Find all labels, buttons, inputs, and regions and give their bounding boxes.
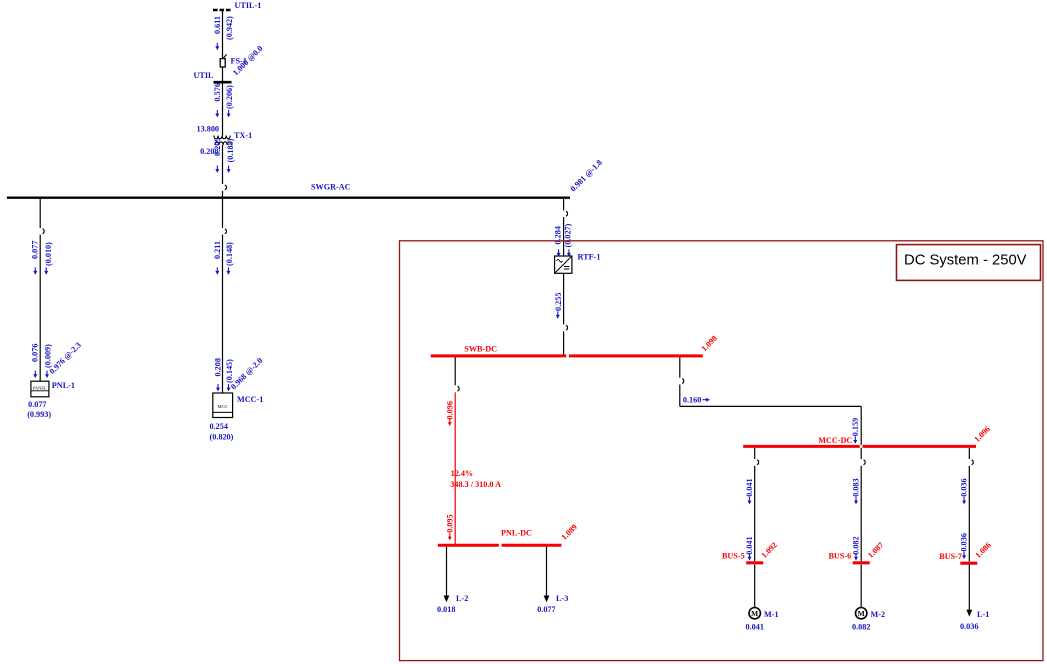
wire SWGR-AC to breaker [222, 199, 224, 228]
flow arrow [853, 436, 857, 443]
breaker MCC-DC feed [682, 379, 684, 384]
svg-text:L-1: L-1 [977, 610, 989, 619]
svg-text:0.077: 0.077 [28, 400, 46, 409]
svg-text:RTF-1: RTF-1 [578, 253, 601, 262]
svg-text:SWB-DC: SWB-DC [464, 345, 497, 354]
wire UTIL bus to TX-1 [222, 83, 224, 135]
overloaded cable to PNL-DC [454, 392, 456, 544]
svg-text:0.036: 0.036 [960, 622, 978, 631]
transformer TX-1 [214, 136, 231, 145]
bus UTIL [214, 81, 232, 84]
svg-text:(0.010): (0.010) [44, 242, 53, 266]
svg-text:MCC-1: MCC-1 [237, 395, 263, 404]
breaker BUS-5 feed [757, 460, 759, 465]
bus BUS-7 [960, 562, 977, 565]
flow arrow [854, 553, 858, 560]
breaker on TX-1 feed [225, 185, 227, 190]
svg-text:PANEL: PANEL [33, 385, 47, 390]
flow arrow [556, 311, 560, 318]
svg-text:0.095: 0.095 [445, 514, 454, 532]
svg-text:0.159: 0.159 [851, 418, 860, 436]
flow arrow [448, 419, 452, 426]
svg-text:SWGR-AC: SWGR-AC [311, 183, 351, 192]
svg-text:(0.027): (0.027) [563, 223, 572, 247]
svg-text:MCC: MCC [217, 404, 227, 409]
flow arrows [215, 166, 219, 173]
wire RTF-1 to breaker [563, 273, 565, 324]
svg-text:0.077: 0.077 [31, 241, 40, 259]
svg-text:M: M [751, 609, 758, 618]
wire SWB-DC to breaker [454, 357, 456, 385]
flow arrows [33, 267, 37, 274]
wire MCC-DC to breaker [860, 448, 862, 459]
DC system title box [897, 245, 1041, 281]
wire breaker to BUS-7 [968, 466, 970, 562]
svg-text:MCC-DC: MCC-DC [818, 436, 852, 445]
MCC symbol MCC-1 [213, 393, 233, 418]
svg-text:0.018: 0.018 [437, 605, 455, 614]
flow arrow [962, 497, 966, 504]
bus MCC-DC [743, 445, 860, 448]
svg-text:0.576: 0.576 [213, 83, 222, 101]
svg-text:PNL-1: PNL-1 [52, 381, 75, 390]
wire breaker to MCC-1 [222, 235, 224, 393]
svg-text:12.4%: 12.4% [451, 469, 474, 478]
svg-text:0.041: 0.041 [746, 622, 764, 631]
flow arrows [216, 384, 220, 391]
flow arrow [448, 533, 452, 540]
svg-text:0.209: 0.209 [213, 138, 222, 156]
svg-text:(0.185): (0.185) [226, 138, 235, 162]
svg-text:0.160: 0.160 [683, 396, 701, 405]
svg-text:(0.820): (0.820) [210, 433, 234, 442]
wire breaker to corner [679, 385, 681, 407]
svg-text:PNL-DC: PNL-DC [501, 529, 532, 538]
wire breaker to RTF-1 [563, 217, 565, 256]
svg-text:0.036: 0.036 [960, 533, 969, 551]
svg-text:M-1: M-1 [764, 610, 779, 619]
svg-text:BUS-7: BUS-7 [939, 552, 962, 561]
flow arrows [33, 371, 37, 378]
utility source UTIL-1 [213, 9, 232, 12]
bus SWGR-AC [7, 196, 570, 198]
breaker RTF-1 feed [566, 211, 568, 216]
load L-1 [966, 565, 972, 617]
breaker PNL-1 feed [43, 229, 45, 234]
svg-text:0.211: 0.211 [213, 241, 222, 259]
svg-text:0.255: 0.255 [554, 293, 563, 311]
wire BUS-6 to M-2 [860, 565, 862, 608]
svg-text:L-2: L-2 [456, 594, 468, 603]
svg-text:BUS-5: BUS-5 [722, 552, 745, 561]
svg-text:(0.942): (0.942) [225, 16, 234, 40]
bus SWB-DC [431, 354, 567, 357]
rectifier RTF-1 [555, 256, 572, 273]
svg-text:0.041: 0.041 [745, 478, 754, 496]
breaker BUS-7 feed [972, 460, 974, 465]
bus BUS-6 [853, 561, 870, 564]
svg-text:0.284: 0.284 [553, 226, 562, 244]
motor M-1 [749, 608, 760, 619]
svg-text:(0.009): (0.009) [44, 344, 53, 368]
flow arrow [962, 552, 966, 559]
flow arrow [215, 43, 219, 50]
panel PNL-1 [31, 381, 49, 397]
wire SWB-DC to breaker [679, 357, 681, 377]
svg-text:0.076: 0.076 [31, 344, 40, 362]
svg-text:0.611: 0.611 [213, 16, 222, 34]
load L-3 [544, 547, 550, 603]
wire SWGR-AC to breaker [563, 199, 565, 211]
wire breaker to BUS-5 [754, 466, 756, 561]
svg-text:L-3: L-3 [556, 594, 568, 603]
svg-text:TX-1: TX-1 [234, 131, 252, 140]
svg-text:UTIL: UTIL [193, 71, 214, 80]
wire corner horizontal [680, 405, 861, 407]
wire breaker to SWB-DC [563, 331, 565, 354]
flow arrows [557, 249, 561, 256]
svg-text:(0.145): (0.145) [225, 359, 234, 383]
wire breaker to BUS-6 [860, 466, 862, 561]
svg-text:(0.148): (0.148) [225, 242, 234, 266]
wire breaker to PNL-1 [39, 235, 41, 381]
svg-text:0.036: 0.036 [960, 478, 969, 496]
flow arrows [215, 267, 219, 274]
svg-text:BUS-6: BUS-6 [828, 552, 851, 561]
flow arrow [748, 497, 752, 504]
svg-text:0.096: 0.096 [445, 401, 454, 419]
breaker BUS-6 feed [864, 460, 866, 465]
bus PNL-DC [438, 544, 499, 547]
svg-text:0.082: 0.082 [852, 536, 861, 554]
svg-text:(0.206): (0.206) [225, 85, 234, 109]
svg-text:0.077: 0.077 [537, 605, 555, 614]
flow arrow right [703, 398, 710, 402]
svg-text:DC System - 250V: DC System - 250V [904, 253, 1027, 269]
wire UTIL-1 to FS-1 [222, 11, 224, 59]
svg-text:(0.993): (0.993) [27, 410, 51, 419]
flow arrow [748, 553, 752, 560]
svg-text:0.254: 0.254 [210, 422, 228, 431]
svg-text:13.800: 13.800 [196, 124, 219, 133]
svg-text:0.041: 0.041 [745, 536, 754, 554]
breaker on SWB-DC feed [566, 325, 568, 330]
breaker PNL-DC feed [458, 386, 460, 391]
motor M-2 [856, 608, 867, 619]
DC system border [400, 241, 1044, 661]
svg-text:0.082: 0.082 [852, 622, 870, 631]
wire FS-1 to bus UTIL [222, 67, 224, 81]
wire SWGR-AC to breaker [39, 199, 41, 228]
wire corner to MCC-DC [860, 406, 862, 445]
svg-text:M: M [858, 609, 865, 618]
wire breaker to SWGR-AC [222, 191, 224, 197]
svg-text:348.3 / 310.0 A: 348.3 / 310.0 A [450, 480, 501, 489]
svg-text:M-2: M-2 [871, 610, 886, 619]
breaker MCC-1 feed [225, 229, 227, 234]
svg-text:0.083: 0.083 [852, 478, 861, 496]
wire TX-1 to breaker [222, 145, 224, 184]
flow arrows [215, 110, 219, 117]
wire MCC-DC to breaker [754, 448, 756, 459]
flow arrow [854, 497, 858, 504]
svg-text:0.208: 0.208 [213, 358, 222, 376]
bus BUS-5 [746, 561, 763, 564]
wire BUS-5 to M-1 [754, 565, 756, 608]
svg-text:UTIL-1: UTIL-1 [235, 1, 262, 10]
load L-2 [444, 547, 450, 603]
fuse FS-1 [220, 54, 226, 67]
wire MCC-DC to breaker [968, 448, 970, 459]
